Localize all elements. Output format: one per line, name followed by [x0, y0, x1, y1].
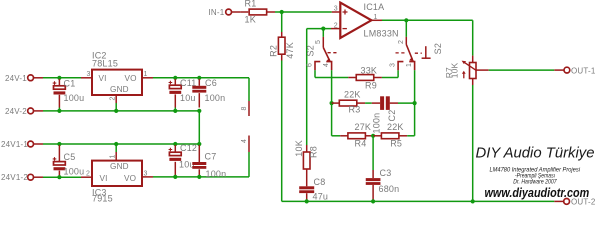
- svg-text:7915: 7915: [92, 194, 113, 204]
- svg-text:VO: VO: [125, 74, 137, 83]
- resistor R8: [306, 145, 308, 152]
- node R7 ground junction: [471, 199, 475, 203]
- svg-text:VO: VO: [124, 174, 136, 183]
- switch S2 right contact pin 3: [398, 62, 403, 71]
- wire minus node down left: [306, 29, 308, 145]
- svg-text:R1: R1: [245, 0, 257, 9]
- wire output corner down to R7: [472, 20, 474, 55]
- svg-text:1: 1: [406, 63, 413, 67]
- wire +15 rail corner down to pin 8: [248, 78, 250, 101]
- terminal OUT-2: [564, 199, 570, 205]
- node minus-input/switch junction: [321, 27, 325, 31]
- wire IN-1 to R1: [232, 11, 241, 13]
- svg-text:8: 8: [241, 106, 248, 110]
- node left rail R3 junction: [330, 101, 334, 105]
- svg-text:C3: C3: [380, 168, 392, 178]
- svg-text:47u: 47u: [313, 192, 329, 202]
- node C12 bottom junction: [173, 175, 177, 179]
- svg-text:R5: R5: [390, 138, 402, 148]
- wire ground rail: [307, 200, 555, 202]
- svg-text:27K: 27K: [355, 122, 372, 132]
- svg-text:2: 2: [398, 40, 405, 44]
- resistor R3: [332, 102, 340, 104]
- svg-text:1: 1: [144, 71, 148, 78]
- wire C2 to right rail: [398, 102, 415, 104]
- capacitor C1 leads: [58, 79, 60, 86]
- svg-text:24V-1: 24V-1: [5, 74, 27, 83]
- svg-text:IC1A: IC1A: [364, 2, 385, 12]
- wire R7 bottom to ground rail: [472, 85, 474, 201]
- wire 24V1-1 rail: [34, 143, 44, 145]
- switch S2 right actuator: [415, 52, 422, 54]
- node output/switch junction: [404, 18, 408, 22]
- potentiometer R7 wiper lead: [476, 69, 489, 71]
- capacitor C6 leads: [198, 79, 200, 86]
- capacitor C12: [169, 152, 181, 155]
- node C1/ground junction: [57, 109, 61, 113]
- svg-text:6: 6: [307, 63, 314, 67]
- op-amp IC1A input pin leads: [332, 11, 340, 13]
- svg-text:R3: R3: [349, 104, 361, 114]
- svg-text:Dr. Hardware 2007: Dr. Hardware 2007: [513, 179, 557, 186]
- svg-text:47K: 47K: [285, 42, 295, 59]
- node C8 ground junction: [305, 199, 309, 203]
- resistor R4: [340, 135, 348, 137]
- node C7 bottom junction: [197, 175, 201, 179]
- wire pin 4 to -15 rail: [248, 152, 250, 177]
- capacitor C11 leads: [174, 79, 176, 85]
- svg-text:100n: 100n: [372, 113, 382, 134]
- svg-text:C8: C8: [314, 177, 326, 187]
- resistor R9: [348, 77, 356, 79]
- switch S2 left pin 5 lead: [322, 29, 324, 37]
- svg-text:IN-1: IN-1: [209, 8, 225, 17]
- svg-text:C12: C12: [180, 143, 197, 153]
- svg-text:C1: C1: [64, 79, 76, 89]
- svg-text:3: 3: [334, 6, 338, 13]
- wire IC3 VO to -15 rail: [142, 176, 153, 178]
- wire R5 to right rail corner: [407, 135, 414, 137]
- wire R1 to op-amp +input: [275, 11, 332, 13]
- svg-text:R8: R8: [309, 146, 319, 158]
- svg-text:10K: 10K: [294, 140, 304, 157]
- svg-text:78L15: 78L15: [92, 59, 118, 69]
- svg-text:33K: 33K: [361, 66, 378, 76]
- resistor R2: [281, 32, 283, 37]
- wire R7 wiper to OUT-1: [489, 69, 555, 71]
- svg-text:R2: R2: [269, 45, 279, 57]
- wire 24V-1 to IC2 VI: [34, 77, 44, 79]
- wire pin 4 down to feedback rail: [331, 70, 333, 136]
- svg-text:10K: 10K: [450, 62, 460, 78]
- node right rail R3 junction: [413, 101, 417, 105]
- svg-text:GND: GND: [110, 162, 129, 171]
- op-amp output pin lead: [371, 19, 382, 21]
- svg-text:OUT-1: OUT-1: [571, 66, 596, 75]
- wire left rail corner to R4: [332, 135, 341, 137]
- svg-text:S2: S2: [433, 43, 443, 54]
- svg-text:3: 3: [390, 63, 397, 67]
- IC2 78L15 regulator: [92, 70, 142, 95]
- svg-text:C7: C7: [205, 152, 217, 162]
- svg-text:5: 5: [315, 40, 322, 44]
- wire R4/R5 junction down to C3: [372, 136, 374, 170]
- svg-text:VI: VI: [100, 174, 108, 183]
- svg-text:100u: 100u: [64, 167, 85, 177]
- wire 24V1-2 to IC3 VI: [34, 176, 44, 178]
- svg-text:4: 4: [323, 63, 330, 67]
- node IC2 GND junction: [114, 109, 118, 113]
- switch S2 right contact pin 1: [409, 62, 414, 71]
- svg-text:22K: 22K: [344, 89, 361, 99]
- capacitor C1: [54, 86, 66, 89]
- node C11 top junction: [173, 76, 177, 80]
- node C11 bottom junction: [173, 109, 177, 113]
- switch S2 right lever: [406, 45, 412, 60]
- wire op-amp output to R7: [382, 19, 473, 21]
- switch S2 right linkage dashes: [396, 52, 406, 54]
- capacitor C8 bottom lead: [306, 193, 308, 200]
- svg-text:100u: 100u: [64, 93, 85, 103]
- svg-text:10u: 10u: [180, 93, 196, 103]
- terminal 24V1-1: [28, 141, 34, 147]
- node 24V1-1 rail to vertical junction: [197, 142, 201, 146]
- op-amp IC1A: [340, 3, 371, 38]
- terminal OUT-1: [564, 67, 570, 73]
- wire R2 to ground rail: [281, 61, 283, 202]
- svg-text:24V1-1: 24V1-1: [1, 140, 28, 149]
- switch S2 left contact pin 4: [326, 62, 331, 71]
- switch S2 left lever: [323, 48, 329, 61]
- IC3 7915 regulator: [92, 161, 142, 186]
- svg-text:24V-2: 24V-2: [5, 107, 27, 116]
- svg-text:1: 1: [110, 154, 117, 158]
- wire R3 to C2: [365, 102, 372, 104]
- node R1/R2 junction: [280, 10, 284, 14]
- wire 24V-2 ground rail: [34, 110, 44, 112]
- node 24V-1/C1 junction: [57, 76, 61, 80]
- svg-text:VI: VI: [99, 74, 107, 83]
- node R4/R5 junction: [371, 134, 375, 138]
- node C5 bottom junction: [57, 175, 61, 179]
- node C3 ground junction: [371, 199, 375, 203]
- wire R9 to switch pin 3: [382, 77, 398, 79]
- IC1 power pin 8: [248, 101, 250, 116]
- terminal IN-1: [226, 9, 232, 15]
- switch S2 left contact pin 6: [315, 62, 320, 71]
- wire pin 6 to R9: [314, 70, 316, 77]
- svg-text:100n: 100n: [206, 169, 227, 179]
- terminal 24V-2: [28, 108, 34, 114]
- node C6 bottom junction: [197, 109, 201, 113]
- capacitor C12 leads: [174, 145, 176, 152]
- svg-text:DIY Audio Türkiye: DIY Audio Türkiye: [476, 146, 595, 162]
- capacitor C2: [380, 96, 384, 110]
- svg-text:R9: R9: [365, 81, 377, 91]
- wire IC2 VO to +15 rail: [142, 77, 153, 79]
- svg-text:4: 4: [241, 139, 248, 143]
- svg-text:10u: 10u: [179, 160, 195, 170]
- svg-text:100n: 100n: [205, 93, 226, 103]
- svg-text:C5: C5: [64, 152, 76, 162]
- svg-text:LM833N: LM833N: [364, 29, 399, 39]
- IC3 GND pin lead: [115, 144, 117, 152]
- capacitor C5: [54, 162, 66, 165]
- capacitor C3 leads: [372, 170, 374, 178]
- capacitor C8: [299, 186, 314, 189]
- potentiometer R7: [472, 56, 474, 63]
- node C5 top junction: [57, 142, 61, 146]
- switch S2 left linkage dashes: [328, 52, 338, 54]
- wire pin 1 down right feedback rail: [414, 70, 416, 136]
- wire ground rail drop to 24V1-1 rail: [198, 111, 200, 144]
- node C6 top junction: [197, 76, 201, 80]
- svg-text:24V1-2: 24V1-2: [1, 173, 28, 182]
- svg-text:GND: GND: [110, 85, 129, 94]
- node C12 top junction: [173, 142, 177, 146]
- svg-text:3: 3: [87, 71, 91, 78]
- capacitor C7 leads: [198, 145, 200, 162]
- svg-text:C2: C2: [387, 110, 397, 122]
- switch S2 right pin 2 lead: [405, 20, 407, 37]
- svg-text:R4: R4: [355, 138, 367, 148]
- wire junction down to R2: [281, 12, 283, 32]
- capacitor C11: [169, 85, 181, 88]
- svg-text:2: 2: [334, 23, 338, 30]
- svg-text:C6: C6: [205, 78, 217, 88]
- svg-text:22K: 22K: [387, 122, 404, 132]
- node IC3 GND junction: [114, 142, 118, 146]
- terminal 24V1-2: [28, 174, 34, 180]
- IC1 power pin 4: [248, 136, 250, 153]
- resistor R1: [240, 11, 248, 13]
- svg-text:S2: S2: [306, 45, 316, 56]
- wire minus input to corner: [307, 28, 331, 30]
- capacitor C5 leads: [58, 145, 60, 162]
- svg-text:www.diyaudiotr.com: www.diyaudiotr.com: [485, 186, 590, 200]
- IC2 GND pin lead: [115, 95, 117, 103]
- capacitor C3: [366, 178, 381, 181]
- terminal 24V-1: [28, 75, 34, 81]
- svg-text:680n: 680n: [379, 184, 400, 194]
- capacitor C2 leads: [372, 102, 380, 104]
- svg-text:1K: 1K: [245, 15, 256, 25]
- capacitor C6: [192, 86, 206, 89]
- capacitor C7: [192, 162, 206, 165]
- resistor R5: [373, 135, 381, 137]
